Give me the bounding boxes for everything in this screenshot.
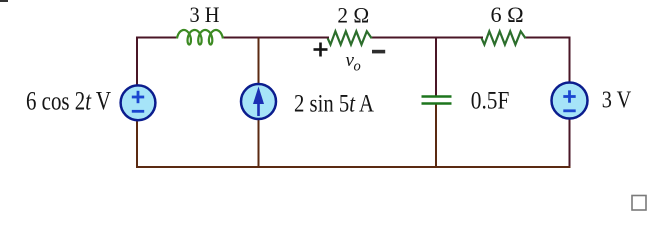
svg-text:0.5F: 0.5F bbox=[471, 88, 510, 115]
svg-text:6 cos 2t V: 6 cos 2t V bbox=[26, 86, 111, 116]
svg-text:o: o bbox=[354, 59, 361, 75]
svg-text:3 V: 3 V bbox=[602, 87, 632, 114]
svg-text:2 sin 5t A: 2 sin 5t A bbox=[294, 89, 374, 118]
svg-text:6 Ω: 6 Ω bbox=[491, 2, 524, 27]
svg-text:2 Ω: 2 Ω bbox=[337, 2, 369, 27]
svg-text:3 H: 3 H bbox=[190, 2, 220, 27]
